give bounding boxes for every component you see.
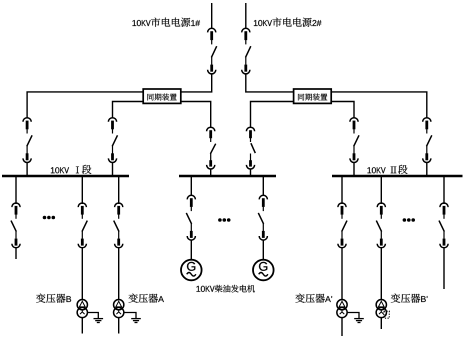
breaker QF4 bus I incoming B (withdrawable circuit breaker)	[108, 118, 117, 163]
wire: QF13 to generator G2	[262, 241, 264, 260]
wire: QF9 feeder stub	[15, 248, 17, 260]
breaker QF9 bus I spare feeder (withdrawable circuit breaker)	[11, 203, 20, 248]
wire: bus II to feeder breaker QF14	[341, 176, 343, 204]
breaker QF14 transformer A' feeder (withdrawable circuit breaker)	[338, 203, 347, 248]
bus: 10KV section II busbar	[332, 175, 463, 178]
breaker QF6 bus II incoming A (withdrawable circuit breaker)	[423, 118, 432, 163]
wire: QF16 feeder stub	[443, 248, 445, 290]
wire: QF5 to bus II	[353, 162, 355, 176]
wire: QF7 to generator bus	[210, 169, 212, 177]
wire: bus II to feeder breaker QF16	[443, 176, 445, 204]
wire: feeder continues below transformer B	[81, 318, 83, 334]
wire: feeder continues below transformer A'	[341, 318, 343, 337]
wire: bus II to feeder breaker QF15	[380, 176, 382, 204]
synchronizing device box 2 (同期装置)	[294, 89, 332, 103]
ellipsis generator feeders (ellipsis: more feeders)	[218, 218, 230, 222]
ground (neutral earthing of transformer B)	[88, 313, 104, 323]
label: utility source 2# name	[254, 18, 322, 27]
wire: QF12 to generator G1	[190, 241, 192, 260]
breaker QF12 generator 1 feeder (withdrawable circuit breaker)	[186, 195, 195, 240]
transformer B' (two-winding transformer, delta/wye)	[376, 300, 386, 318]
breaker QF1 source 1# main (withdrawable circuit breaker)	[208, 28, 217, 74]
ellipsis bus I feeders (ellipsis: more feeders)	[43, 216, 55, 220]
ground (neutral earthing of transformer A')	[347, 313, 364, 323]
label: transformer B' name	[391, 294, 428, 303]
label: sync device 2 text	[298, 94, 327, 101]
ellipsis bus II feeders (ellipsis: more feeders)	[403, 218, 415, 222]
wire: source 1# incoming drop	[211, 3, 213, 28]
breaker QF3 bus I incoming A (withdrawable circuit breaker)	[23, 118, 32, 163]
wire: bus I to feeder breaker QF10	[81, 176, 83, 204]
breaker QF10 transformer B feeder (withdrawable circuit breaker)	[78, 203, 87, 248]
wire: bus I to feeder breaker QF11	[118, 176, 120, 204]
label: bus I name 10KV I 段	[51, 165, 91, 174]
wire: sync box 1 to left outer incoming QF3	[27, 92, 142, 118]
breaker QF15 transformer B' feeder (withdrawable circuit breaker)	[376, 203, 385, 248]
generator G1 (diesel generator G~)	[181, 260, 202, 281]
transformer A' (two-winding transformer, delta/wye)	[337, 300, 347, 318]
wire: QF4 to bus I	[112, 162, 114, 176]
wire: sync box 2 to right outer incoming QF6	[331, 92, 426, 118]
wire: QF10 to transformer B	[81, 248, 83, 301]
breaker QF7 center bus incoming 1 (withdrawable circuit breaker)	[207, 127, 216, 169]
wire: QF11 to transformer A	[118, 248, 120, 301]
breaker QF11 transformer A feeder (withdrawable circuit breaker)	[114, 203, 123, 248]
wire: QF8 to generator bus	[250, 169, 252, 177]
label: sync device 1 text	[147, 94, 176, 101]
wire: feeder continues below transformer B'	[380, 318, 382, 330]
label: bus II name 10KV II 段	[368, 165, 408, 174]
wire: QF3 to bus I	[26, 162, 28, 176]
wire: right inner incoming QF5 tap to center drop	[251, 102, 355, 129]
wire: feeder continues below transformer A	[118, 318, 120, 334]
breaker QF5 bus II incoming B (withdrawable circuit breaker)	[350, 118, 359, 163]
label: transformer A name	[129, 294, 164, 303]
label: diesel generator caption	[197, 285, 255, 293]
wire: generator bus to breaker QF12	[190, 176, 192, 196]
label: transformer A' name	[295, 294, 332, 303]
label: transformer B name	[36, 294, 71, 303]
breaker QF2 source 2# main (withdrawable circuit breaker)	[242, 28, 251, 74]
wire: QF2 to sync box 2 left side	[246, 75, 293, 92]
wire: left inner incoming QF4 tap to center drop	[113, 102, 211, 129]
wire: bus I to feeder breaker QF9	[15, 176, 17, 204]
breaker QF8 center bus incoming 2 (withdrawable circuit breaker)	[246, 127, 255, 169]
transformer A (two-winding transformer, delta/wye)	[114, 300, 124, 318]
wire: source 2# incoming drop	[245, 3, 247, 28]
bus: 10KV section I busbar	[2, 175, 129, 178]
wire: QF15 to transformer B'	[380, 248, 382, 301]
wire: QF14 to transformer A'	[341, 248, 343, 301]
breaker QF13 generator 2 feeder (withdrawable circuit breaker)	[258, 195, 267, 240]
wire: generator bus to breaker QF13	[262, 176, 264, 196]
label: utility source 1# name	[133, 18, 201, 27]
wire: QF1 to sync box 1 right side	[181, 75, 211, 92]
breaker QF16 bus II spare feeder (withdrawable circuit breaker)	[439, 203, 448, 248]
ground (dotted earthing mark of transformer B')	[384, 311, 389, 318]
synchronizing device box 1 (同期装置)	[143, 89, 181, 103]
wire: QF6 to bus II	[426, 162, 428, 176]
ground (neutral earthing of transformer A)	[124, 313, 141, 323]
generator G2 (diesel generator G~)	[253, 260, 274, 281]
transformer B (two-winding transformer, delta/wye)	[77, 300, 87, 318]
bus: generator center busbar	[179, 175, 276, 178]
